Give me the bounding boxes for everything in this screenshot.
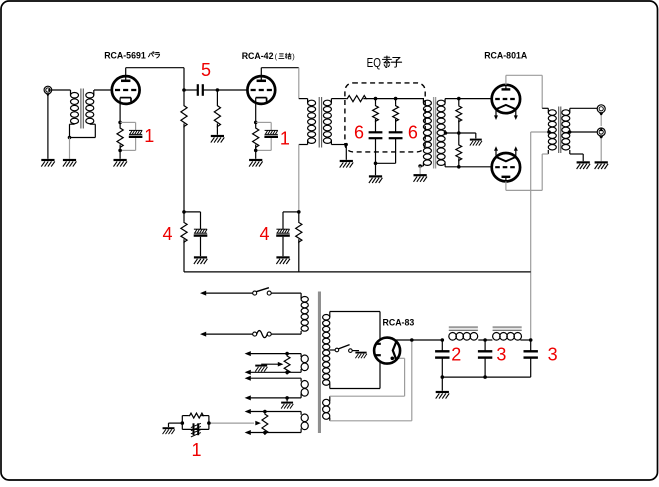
svg-text:6: 6 [408, 123, 418, 143]
svg-text:RCA-83: RCA-83 [383, 318, 415, 328]
svg-text:): ) [292, 52, 294, 61]
svg-text:RCA-801A: RCA-801A [484, 50, 528, 60]
svg-text:1: 1 [280, 129, 290, 149]
svg-text:3: 3 [548, 345, 558, 365]
svg-text:RCA-5691: RCA-5691 [104, 50, 146, 60]
svg-text:2: 2 [451, 345, 461, 365]
svg-text:RCA-42: RCA-42 [242, 51, 274, 61]
svg-text:1: 1 [191, 440, 201, 460]
svg-text:4: 4 [162, 224, 172, 244]
svg-text:3: 3 [496, 345, 506, 365]
svg-text:6: 6 [354, 123, 364, 143]
svg-text:5: 5 [201, 60, 211, 80]
svg-text:EQ: EQ [367, 55, 381, 70]
svg-text:1: 1 [144, 126, 154, 146]
svg-text:4: 4 [259, 224, 269, 244]
